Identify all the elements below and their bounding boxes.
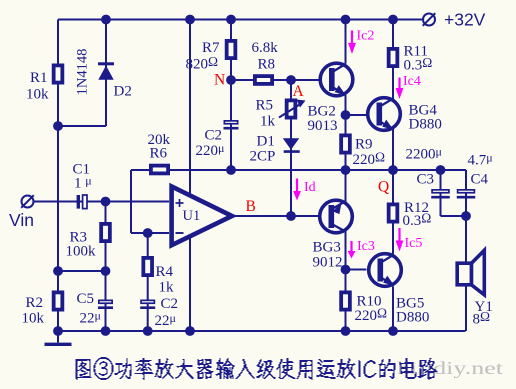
svg-text:1k: 1k (159, 280, 175, 296)
svg-text:U1: U1 (183, 208, 201, 224)
svg-text:1N4148: 1N4148 (75, 49, 91, 96)
svg-text:D1: D1 (257, 134, 275, 150)
svg-text:Ic4: Ic4 (403, 74, 421, 89)
svg-text:Ic3: Ic3 (357, 239, 375, 254)
svg-text:C2: C2 (161, 296, 179, 312)
svg-text:C4: C4 (471, 172, 489, 188)
svg-text:Ic5: Ic5 (405, 236, 423, 251)
svg-text:9013: 9013 (308, 118, 338, 134)
svg-text:R5: R5 (256, 98, 274, 114)
svg-text:R4: R4 (156, 264, 174, 280)
svg-text:D880: D880 (396, 310, 429, 326)
svg-text:D880: D880 (409, 117, 442, 133)
svg-text:100k: 100k (66, 244, 97, 260)
svg-text:R2: R2 (26, 295, 44, 311)
svg-text:N: N (214, 72, 225, 89)
svg-text:9012: 9012 (313, 255, 343, 271)
svg-text:BG3: BG3 (313, 240, 341, 256)
svg-text:10k: 10k (26, 87, 49, 103)
svg-text:Id: Id (304, 180, 316, 195)
svg-text:Q: Q (378, 179, 389, 196)
svg-text:C3: C3 (417, 172, 435, 188)
svg-text:A: A (293, 83, 305, 100)
svg-text:R6: R6 (150, 146, 168, 162)
svg-text:Vin: Vin (9, 210, 34, 230)
svg-text:10k: 10k (22, 311, 45, 327)
svg-text:B: B (246, 198, 256, 215)
svg-text:2CP: 2CP (250, 149, 276, 165)
svg-text:1k: 1k (260, 114, 276, 130)
svg-text:R1: R1 (30, 70, 48, 86)
svg-text:R9: R9 (355, 137, 373, 153)
svg-text:D2: D2 (114, 84, 132, 100)
svg-text:R8: R8 (258, 57, 276, 73)
svg-text:6.8k: 6.8k (252, 40, 279, 56)
svg-text:Ic2: Ic2 (357, 29, 375, 44)
svg-text:+32V: +32V (444, 10, 486, 30)
svg-text:C5: C5 (77, 291, 95, 307)
